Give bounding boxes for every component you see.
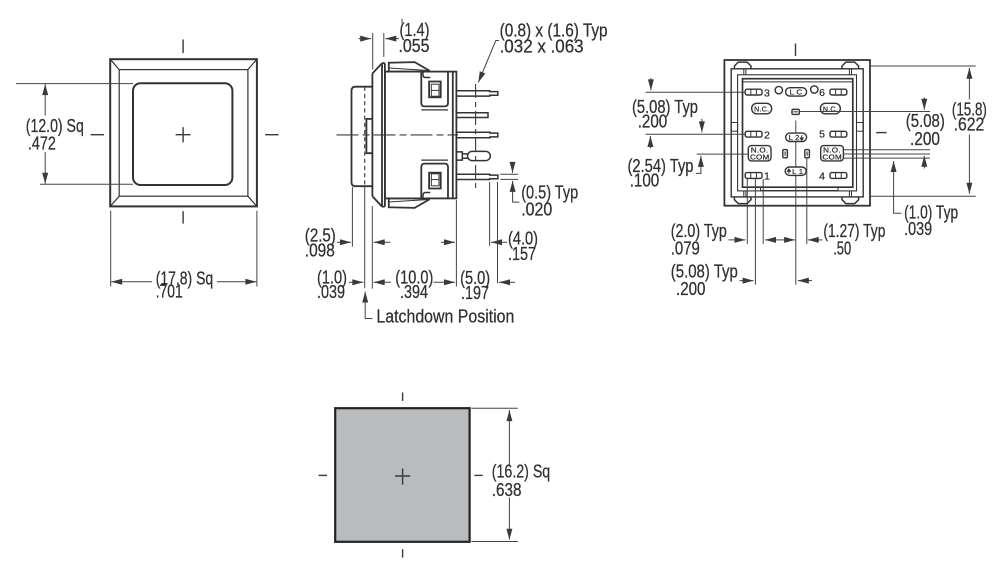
back view: L2 pad down-arrow glyph xyxy=(800,135,803,140)
back view: 15.8 ext line top xyxy=(870,65,976,67)
side view: bottom latch tab inner slant xyxy=(389,200,429,203)
front view: left tick xyxy=(91,134,104,136)
side view: 1.4 dim left-pointing arrow xyxy=(385,38,399,40)
svg-text:6: 6 xyxy=(819,87,825,99)
back view: leader row2 right xyxy=(799,111,930,113)
front view: bevel corner diagonal bottom-right xyxy=(248,196,257,206)
back view: 15.8 dim line down arrow xyxy=(968,135,970,194)
front view: bevel corner diagonal top-right xyxy=(248,59,257,69)
side view: 1.4 dim right-pointing arrow xyxy=(359,38,372,40)
back view: L1 pad up-arrow glyph xyxy=(787,169,790,174)
bottom view: left tick xyxy=(319,474,327,476)
svg-text:4: 4 xyxy=(819,170,825,182)
front view: 12.0 dimension line upper segment with up arrow xyxy=(44,84,46,115)
back view: NC pad left xyxy=(752,103,772,114)
back view: corner tab top-right xyxy=(842,62,859,69)
svg-text:.157: .157 xyxy=(508,244,536,264)
side view: bezel bottom slant xyxy=(372,196,385,206)
svg-text:N.O.: N.O. xyxy=(823,147,841,154)
bottom view: top tick xyxy=(402,393,404,401)
svg-text:1: 1 xyxy=(764,171,770,183)
svg-text:L C: L C xyxy=(790,90,803,97)
side view: cap keying notch xyxy=(366,119,372,153)
back view: right tick xyxy=(876,132,886,134)
back view: 15.8 ext line bottom xyxy=(870,195,976,197)
side view: top latch tab xyxy=(389,62,429,72)
front view: extension line top of 12.0 dim xyxy=(16,83,133,85)
side view: ext line x=497.5 below pin tip xyxy=(497,182,499,283)
front view: extension line left of 17.8 dim xyxy=(110,211,112,287)
back view: right 5.08 up arrow xyxy=(923,156,925,169)
back view: NO/COM pad left xyxy=(748,146,771,161)
bottom view: bottom tick xyxy=(402,549,404,557)
svg-text:.200: .200 xyxy=(638,112,668,132)
svg-text:Latchdown Position: Latchdown Position xyxy=(376,307,514,327)
svg-text:5: 5 xyxy=(819,129,825,141)
bottom view: 16.2 dim line up arrow xyxy=(508,410,510,466)
back view: terminal pad 2 xyxy=(745,131,762,137)
side view: 2.5 dim right-arrow at cap face xyxy=(337,241,351,243)
back view: right frame bump xyxy=(857,123,864,132)
front view: center cross xyxy=(176,127,191,142)
side view: body outline xyxy=(385,72,457,199)
back view: left frame bump xyxy=(731,123,737,132)
front view: 17.8 dimension line right segment with right arrow xyxy=(217,281,256,283)
svg-text:.472: .472 xyxy=(28,133,56,153)
svg-text:N.O.: N.O. xyxy=(751,147,769,154)
side view: 0.8x1.6 leader arrow to pin xyxy=(478,41,499,83)
svg-text:.50: .50 xyxy=(833,239,851,259)
back view: 15.8 dim line up arrow xyxy=(968,68,970,100)
side view: lower window divider xyxy=(431,179,439,181)
side view: upper block top notch xyxy=(423,72,430,78)
svg-text:.020: .020 xyxy=(521,199,552,219)
svg-text:L 1: L 1 xyxy=(792,169,803,176)
front view: extension line bottom of 12.0 dim xyxy=(40,183,133,185)
side view: upper window inner xyxy=(431,84,439,96)
back view: 2.0 dim left arrow xyxy=(765,239,781,241)
side view: 2.5 dim left-arrow at bezel face xyxy=(374,241,391,243)
front view: 17.8 dimension line left segment with left arrow xyxy=(111,281,152,283)
side view: pin 2 outline xyxy=(456,113,488,118)
side view: lower window outer xyxy=(429,173,441,189)
front view: extension line right of 17.8 dim xyxy=(256,211,258,287)
back view: terminal pad 4 xyxy=(830,173,847,179)
back view: terminal pad 1 xyxy=(745,173,762,179)
side view: rear wall inner line xyxy=(452,72,454,199)
front view: bevel frame square xyxy=(119,70,248,197)
svg-text:N.C.: N.C. xyxy=(754,106,769,113)
SIDE VIEW xyxy=(352,62,457,208)
side view: 5.0 dim left-arrow at pin tip xyxy=(499,281,515,283)
back view: corner tab top-left xyxy=(734,62,751,69)
svg-text:3: 3 xyxy=(764,87,770,99)
side view: latchdown callout arrow and elbow xyxy=(365,292,372,319)
svg-text:2: 2 xyxy=(764,129,770,141)
side view: upper block lower line xyxy=(421,109,448,111)
front view: right tick xyxy=(265,134,278,136)
side view: button cap xyxy=(352,87,373,187)
side view: 10.0 dim right arrow xyxy=(434,281,456,283)
side view: vertical pin centerline xyxy=(475,84,477,192)
svg-text:(16.2) Sq: (16.2) Sq xyxy=(492,461,550,481)
back view: bottom leader E from dot pad xyxy=(806,159,808,245)
svg-text:.638: .638 xyxy=(492,480,522,500)
side view: pin 1 outline xyxy=(456,91,497,96)
back view: corner tab bottom-left xyxy=(734,197,751,204)
back view: NO/COM right leader bottom xyxy=(843,157,930,159)
svg-text:COM: COM xyxy=(750,155,770,162)
side view: ext line x=489.6 below pin cap xyxy=(489,182,491,246)
back view: corner tab bottom-right xyxy=(842,197,859,204)
back view: tick pair above bottom-left tab xyxy=(744,191,746,197)
svg-text:.098: .098 xyxy=(305,241,335,261)
side view: lower block bottom notch xyxy=(423,193,430,199)
front view: bottom tick xyxy=(182,211,184,223)
back view: guide circle right xyxy=(811,86,818,93)
back view: terminal pad 5 xyxy=(830,131,847,137)
side view: bottom latch tab xyxy=(389,198,429,208)
back view: bottom leader C from pad1 xyxy=(762,179,764,244)
back view: leader row4 left xyxy=(697,153,749,155)
side view: pin 4 neck xyxy=(462,154,467,158)
side view: 0.5 typ ext line bottom xyxy=(500,178,518,180)
bottom view: 16.2 dim line down arrow xyxy=(508,498,510,540)
back view: top tick xyxy=(795,44,797,57)
bottom view: right tick xyxy=(474,474,482,476)
front view: top tick xyxy=(182,40,184,54)
back view: LC pad xyxy=(786,88,807,96)
side view: horizontal centerline xyxy=(337,134,459,136)
back view: plate bottom step xyxy=(761,187,839,190)
front view: inner rounded square (12.0 Sq) xyxy=(133,83,232,185)
svg-text:N.C.: N.C. xyxy=(823,106,838,113)
svg-text:.079: .079 xyxy=(671,239,700,259)
back view: 5.08 bottom right arrow xyxy=(740,280,754,282)
back view: left 2.54 down arrow xyxy=(701,119,703,133)
back view: dot pad row4 right xyxy=(805,150,810,158)
bottom view: 16.2 ext line top xyxy=(471,407,517,409)
side view: bezel inner vertical xyxy=(382,63,385,206)
side view: pin 4 capsule tip xyxy=(468,151,491,160)
front view: bevel corner diagonal bottom-left xyxy=(110,196,119,206)
svg-text:.100: .100 xyxy=(630,171,660,191)
back view: 1.27 dim left arrow xyxy=(808,239,823,241)
svg-text:.197: .197 xyxy=(461,283,489,303)
side view: upper window outer xyxy=(429,82,441,98)
bottom view: gray mounting square (16.2 Sq) xyxy=(335,408,469,542)
svg-text:.200: .200 xyxy=(676,279,706,299)
side view: lower block upper line xyxy=(421,159,448,161)
svg-text:.394: .394 xyxy=(400,282,428,302)
side view: 0.5 typ down arrow xyxy=(512,163,514,173)
back view: tick pair above bottom-right tab xyxy=(849,191,851,197)
side view: latchdown ext line x=364.7 xyxy=(364,186,366,288)
svg-text:COM: COM xyxy=(822,155,842,162)
side view: top latch tab inner slant xyxy=(389,68,429,71)
side view: 4.0 dim right-arrow at rear face xyxy=(441,241,455,243)
svg-text:L 2: L 2 xyxy=(789,135,800,142)
front view: outer square (17.8 Sq) xyxy=(110,59,257,206)
back view: terminal pad 6 xyxy=(830,89,847,95)
back view: right 1.0 bracket up arrow xyxy=(894,161,902,213)
back view: inner terminal plate xyxy=(743,79,853,188)
back view: NO/COM right leader middle xyxy=(843,153,930,155)
back view: NO/COM right leader top xyxy=(843,149,930,151)
back view: L2 pad xyxy=(786,133,807,141)
back view: bottom leader B from pad1 xyxy=(754,179,756,285)
side view: ext line x=372.3 below bezel xyxy=(371,206,373,289)
back view: bottom leader A from pad1 xyxy=(746,179,748,244)
back view: L1 pad xyxy=(785,167,806,175)
front view: bevel corner diagonal top-left xyxy=(110,59,119,69)
svg-text:.039: .039 xyxy=(317,282,345,302)
back view: outer square xyxy=(724,60,870,206)
svg-text:.039: .039 xyxy=(904,219,932,239)
side view: lower terminal block xyxy=(421,164,448,199)
side view: upper window divider xyxy=(431,89,439,91)
back view: tick pair under top-left tab xyxy=(744,69,746,75)
side view: pin 3 outline xyxy=(456,132,497,137)
side view: ext line for 1.4 dim at bezel back xyxy=(383,33,385,57)
BACK VIEW xyxy=(724,60,870,206)
back view: left 5.08 down arrow xyxy=(650,78,652,90)
svg-text:.701: .701 xyxy=(156,282,183,302)
side view: 10.0 dim left arrow xyxy=(374,281,391,283)
side view: bezel left face xyxy=(371,74,373,197)
back view: plate inner top line xyxy=(743,81,853,83)
back view: 2.0 dim right arrow xyxy=(729,239,746,241)
side view: pin 5 outline xyxy=(456,174,498,179)
side view: latchdown dashed line through cap xyxy=(364,87,366,187)
side view: lower window inner xyxy=(431,174,439,186)
svg-text:.055: .055 xyxy=(399,36,430,56)
side view: 1.0 dim right-arrow at latchdown line xyxy=(349,281,363,283)
back view: frame 2 xyxy=(731,69,863,197)
back view: NO/COM pad right xyxy=(821,146,844,161)
back view: tick pair under top-right tab xyxy=(849,69,851,75)
back view: bottom leader D from L1 pad xyxy=(795,121,797,285)
svg-text:.200: .200 xyxy=(910,129,940,149)
back view: left 5.08 up arrow xyxy=(649,136,651,148)
back view: terminal pad 3 xyxy=(745,89,762,95)
bottom view: 16.2 ext line bottom xyxy=(471,541,517,543)
side view: ext line x=352.4 below cap xyxy=(351,187,353,247)
back view: center dash pad row2 xyxy=(792,109,799,114)
side view: pin 4 root block xyxy=(456,152,462,160)
side view: upper terminal block xyxy=(421,72,448,107)
side view: 0.5 typ up arrow and bracket xyxy=(513,181,520,202)
side view: 4.0 dim left-arrow at pin cap xyxy=(491,241,507,243)
back view: right 5.08 down arrow xyxy=(923,98,925,110)
svg-text:.622: .622 xyxy=(954,115,985,135)
back view: NC pad right xyxy=(820,103,840,114)
back view: leader row3 left xyxy=(646,133,746,135)
back view: guide circle left xyxy=(775,86,782,93)
front view: 12.0 dimension line lower segment with down arrow xyxy=(44,152,46,184)
side view: bezel top slant xyxy=(372,63,385,73)
side view: 0.5 typ ext line top xyxy=(500,173,518,175)
side view: ext line x=456.4 below body xyxy=(455,200,457,287)
side view: ext line for 1.4 dim at bezel front xyxy=(372,33,374,70)
back view: left 2.54 up arrow bracket xyxy=(696,156,701,174)
bottom view: center cross xyxy=(395,468,410,484)
svg-text:.032 x .063: .032 x .063 xyxy=(500,37,584,57)
side view: tick above 1.4 label xyxy=(401,19,403,23)
back view: 5.08 bottom left arrow xyxy=(798,280,812,282)
back view: frame 3 xyxy=(738,75,857,191)
back view: leader row1 left xyxy=(646,91,746,93)
back view: dot pad row4 left xyxy=(783,150,788,158)
back view: 1.27 dim right arrow xyxy=(780,239,796,241)
